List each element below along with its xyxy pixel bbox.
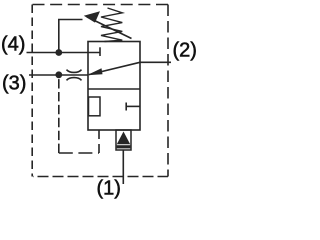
port 1 wire [122,150,124,184]
svg-text:(3): (3) [2,73,26,95]
junction dot J1 port 4 [55,49,62,56]
svg-text:(4): (4) [1,33,25,55]
spring [101,8,122,42]
check valve poppet triangle [117,132,130,145]
blocked port T upper [99,47,101,56]
svg-text:(1): (1) [97,178,121,200]
remote adjust wire [59,20,83,53]
blocked port T lower [125,103,127,111]
pilot dashed wire up to body [98,130,100,153]
port 3 wire [29,74,89,76]
pilot dashed wire horizontal [59,152,99,154]
cartridge boundary dashed right [167,5,169,177]
notch rectangle lower left [89,97,101,116]
adjustment arrowhead [84,11,100,22]
valve body outline [88,42,140,131]
junction dot J2 port 3 [55,71,62,78]
port 4 wire [27,52,101,54]
svg-text:(2): (2) [173,40,197,62]
valve body divider [88,88,140,90]
pilot dashed wire vertical [58,78,60,153]
check valve box [116,130,131,150]
cartridge boundary dashed top [33,4,169,6]
flow arrowhead [87,68,103,75]
cartridge boundary dashed left [31,5,33,177]
cartridge boundary dashed bottom [33,176,168,178]
port 2 wire [140,61,171,63]
flow arrow diagonal [89,62,140,74]
check valve seat bar [117,145,131,148]
adjustment arrow tail [87,17,132,39]
orifice restriction [67,70,82,81]
